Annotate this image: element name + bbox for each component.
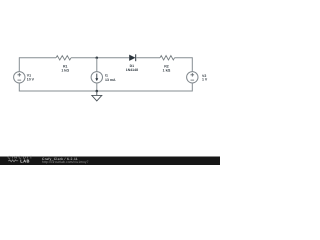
node B junction dot (bottom of middle branch) [96, 90, 99, 93]
svg-text:1 kΩ: 1 kΩ [163, 69, 171, 73]
watermark logo zigzag [8, 160, 18, 162]
wire: bottom horizontal [19, 90, 192, 92]
resistor R1 [56, 56, 71, 60]
wire: left branch lower vertical [18, 83, 20, 92]
watermark bar [0, 157, 220, 166]
voltage source V1 [14, 72, 25, 83]
ground [92, 91, 102, 101]
wire: middle branch upper vertical [96, 58, 98, 72]
voltage source V2 [187, 72, 198, 83]
node A junction dot (top of middle branch) [96, 57, 99, 60]
svg-text:10 V: 10 V [27, 78, 35, 82]
svg-text:LAB: LAB [20, 158, 29, 163]
svg-text:1 V: 1 V [202, 78, 208, 82]
wire: top-right horizontal segment (R2 to right corner) [175, 57, 193, 59]
svg-text:http://circuitlab.com/c/u1moy7: http://circuitlab.com/c/u1moy7 [42, 160, 89, 164]
current source I1 [91, 72, 102, 83]
svg-text:I1: I1 [105, 73, 108, 77]
wire: right branch lower vertical [191, 83, 193, 92]
wire: middle branch lower vertical [96, 83, 98, 91]
wire: horizontal segment (diode to R2) [136, 57, 160, 59]
wire: top-left horizontal segment [19, 57, 56, 59]
diode D1 [129, 54, 136, 61]
wire: top-middle horizontal segment (R1 to diode) [71, 57, 129, 59]
wire: left branch upper vertical [18, 57, 20, 71]
resistor R2 [160, 56, 175, 60]
wire: right branch upper vertical [191, 57, 193, 71]
svg-text:1 kΩ: 1 kΩ [61, 69, 69, 73]
svg-text:13 mA: 13 mA [105, 78, 116, 82]
svg-text:1N4148: 1N4148 [126, 68, 138, 72]
